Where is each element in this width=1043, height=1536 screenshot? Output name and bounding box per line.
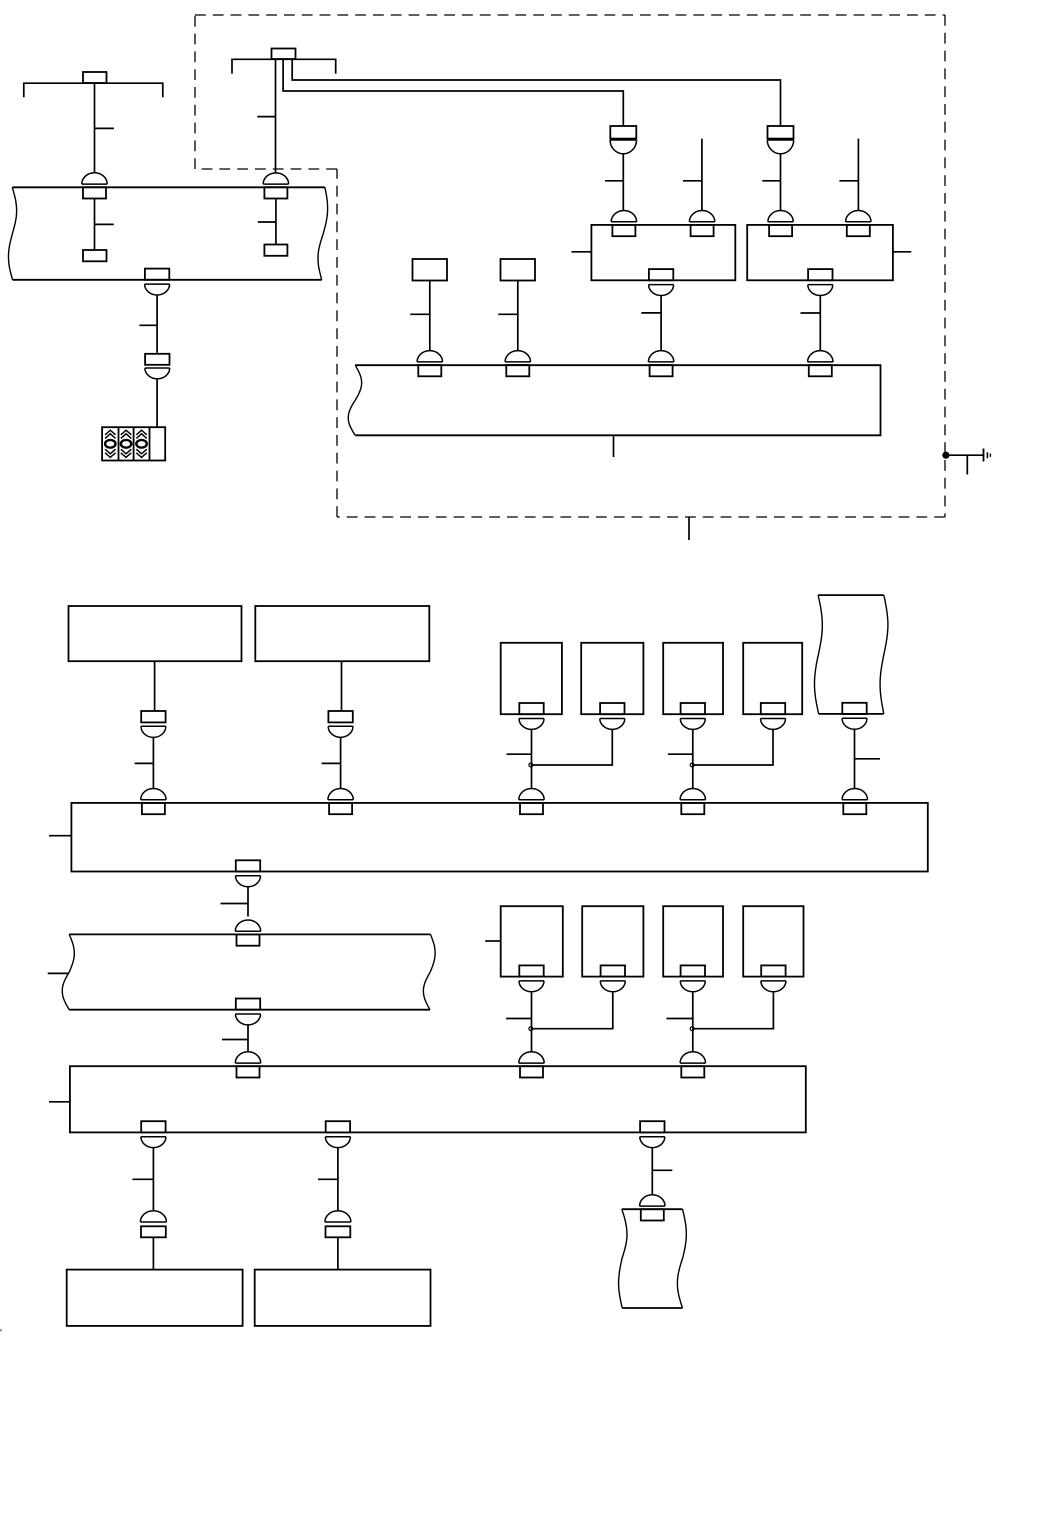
tick mark (box 2 drop) [801,312,821,314]
tick mark (B drop) [322,762,341,764]
tick mark (chain 2 inside box) [258,221,276,223]
link wire C2 to C1 chain [532,729,613,765]
wire from box 2 to long box [819,296,821,351]
in-line connector pair (F1) [140,1211,166,1238]
connector below box D [236,999,261,1025]
tick mark (F3 drop) [652,1169,672,1171]
connector below left harness box [145,269,170,295]
link wire C4 to C3 chain [693,729,773,765]
junction dot (E3/E4) [690,1027,694,1031]
connector into left harness box (chain 2) [263,173,288,199]
component box F1 [67,1270,243,1326]
component box C1 [501,643,562,714]
junction dot on boundary [942,452,949,459]
link wire E4 to E3 chain [693,992,774,1029]
tick mark (drop 3) [762,180,780,182]
stub wire left of E1 [485,940,501,942]
connector into box 1 (left pin) [611,211,636,237]
stub wire crossing dashed boundary [688,517,690,540]
tick mark (F1 drop) [132,1178,153,1180]
connector into box D [235,920,260,946]
connector below C5 [842,703,867,729]
terminal block rect (chain 1) [83,72,107,83]
connector into bus box 2 (from D) [235,1052,260,1078]
component box A [69,606,242,661]
wire (E1 to bus 2) [531,992,533,1052]
wire below box A [154,661,156,711]
tick mark (C5 drop) [855,758,881,760]
wire (B to bus 1) [340,737,342,788]
wire (C1 to bus 1) [531,729,533,788]
wire into box F2 [337,1237,339,1269]
branch wire to connector pair 2 [292,59,780,126]
terminal rect (chain 1 end) [83,250,107,261]
component box C4 [743,643,802,714]
wire to ground [946,454,984,456]
tick mark (A drop) [135,762,154,764]
component box 1 [591,225,735,280]
tick mark (drop 1) [605,180,623,182]
wire (C3 to bus 1) [692,729,694,788]
tick mark (C1 drop) [507,753,532,755]
wire (chain 1 inside box) [94,199,96,251]
connector into box 2 (left pin) [768,211,793,237]
bracket bar (chain 2) [232,59,336,73]
tick mark (C3 drop) [668,753,693,755]
wire from box 1 to long box [660,296,662,351]
wire (D to bus 2) [247,1025,249,1053]
connector into torn box F3 [640,1195,665,1221]
wire (E3 to bus 2) [692,992,694,1052]
connector below C2 [600,703,625,729]
wire below left harness box [156,295,158,353]
in-line connector pair 1 [610,126,636,154]
wire (C5 to bus 1) [854,729,856,788]
component box E1 [501,906,563,976]
torn harness box C5 [815,595,888,714]
left harness box (torn edges) [9,187,328,279]
ground symbol [984,449,991,462]
hanging wire (box 1 right pin) [701,139,703,211]
component box E4 [743,906,803,976]
connector into long box (from box 1) [648,351,673,377]
tick mark (bus 1 to D) [221,903,249,905]
tick mark (S1 drop) [410,313,430,315]
bracket bar (chain 1) [24,83,163,97]
connector below E3 [680,965,705,991]
stub wire below long box [613,436,615,457]
connector into bus box 1 (from C3) [680,789,705,815]
torn harness box F3 [619,1209,687,1308]
tick mark (chain 2 upper) [257,116,275,118]
component box 2 [747,225,893,280]
small component rect S2 [501,259,536,281]
wire below connector pair 1 [622,154,624,211]
tick mark (D to bus 2) [222,1039,248,1041]
connector below C4 [761,703,786,729]
connector into box 2 (right pin) [846,210,871,236]
component box C2 [581,643,643,714]
stub wire right of box 2 [893,251,911,253]
connector below box 1 [649,269,674,295]
in-line connector pair (A) [141,711,166,737]
wire below S1 [429,281,431,351]
stub wire left of bus box 1 [49,835,71,837]
junction dot (C1/C2) [529,763,533,767]
stub wire left of bus box 2 [49,1101,70,1103]
hanging wire (box 2 right pin) [857,139,859,211]
connector below E2 [600,965,625,991]
junction dot (E1/E2) [529,1027,533,1031]
component box B [255,606,429,661]
small component rect S1 [413,259,448,281]
terminal rect (chain 2 end) [264,245,287,256]
connector into long box (from S2) [505,351,530,377]
tick mark (switch drop upper) [139,324,157,326]
power window switch unit [102,427,165,460]
component box F2 [255,1270,431,1326]
terminal block rect (chain 2) [272,49,296,60]
wire into box F1 [152,1237,154,1269]
page edge artifact [0,1329,2,1332]
tick mark (box 1 drop) [641,312,661,314]
dashed harness boundary [195,15,945,517]
wire (bus 2 to F2) [337,1148,339,1211]
connector into bus box 1 (from C5) [842,789,867,815]
wire below box B [341,661,343,711]
tick mark (drop 4) [839,180,858,182]
wire (bus 2 to F1) [152,1148,154,1211]
in-line connector pair 2 [767,126,793,154]
tick mark (drop 2) [683,180,702,182]
bus harness box 2 [70,1066,806,1132]
wire below S2 [517,281,519,351]
stub wire left of box 1 [572,251,592,253]
connector into bus box 1 (from A) [141,788,166,814]
in-line connector pair (B) [328,711,353,737]
wire (chain 2 vertical) [275,59,277,173]
connector below bus box 1 [236,860,261,886]
connector into long box (from S1) [417,351,442,377]
connector into long box (from box 2) [808,351,833,377]
connector below E4 [761,965,786,991]
wire (bus 1 to box D) [247,887,249,917]
tick mark (chain 1 upper) [95,127,114,129]
in-line connector pair (F2) [325,1211,351,1238]
connector below C3 [680,703,705,729]
connector below bus box 2 (right) [640,1121,665,1147]
connector into bus box 1 (from C1) [519,789,544,815]
connector below E1 [519,965,544,991]
connector into bus box 1 (from B) [328,789,353,815]
link wire E2 to E1 chain [532,992,613,1029]
branch wire to connector pair 1 [283,59,623,126]
connector below bus box 2 (left) [141,1121,166,1147]
in-line connector pair (switch drop) [145,354,170,379]
connector into left harness box (chain 1) [82,173,107,199]
component box C3 [663,643,723,714]
wire (chain 1 upper) [94,83,96,173]
wire below connector pair 2 [780,154,782,211]
long harness box (torn left edge) [348,365,880,435]
connector into bus box 2 (from E3) [680,1052,705,1078]
connector below box 2 [808,269,833,295]
connector below bus box 2 (mid) [325,1121,350,1147]
wire (chain 2 inside box) [275,199,277,245]
component box E2 [582,906,643,976]
wire into switch [156,379,158,427]
tick mark (E1 drop) [506,1018,531,1020]
tick mark (E3 drop) [666,1018,692,1020]
tick mark (S2 drop) [498,313,518,315]
tick mark (F2 drop) [318,1178,338,1180]
wire (A to bus 1) [152,737,154,788]
connector below C1 [519,703,544,729]
bus harness box 1 [71,803,927,872]
connector into bus box 2 (from E1) [519,1052,544,1078]
stub wire left of box D [48,972,69,974]
harness box D (torn edges) [62,934,435,1009]
component box E3 [663,906,723,976]
connector into box 1 (right pin) [689,211,714,237]
junction dot (C3/C4) [690,763,694,767]
wire (bus 2 to F3) [651,1148,653,1195]
tick mark (chain 1 inside box) [95,223,114,225]
wire stub below ground lead [966,455,968,474]
